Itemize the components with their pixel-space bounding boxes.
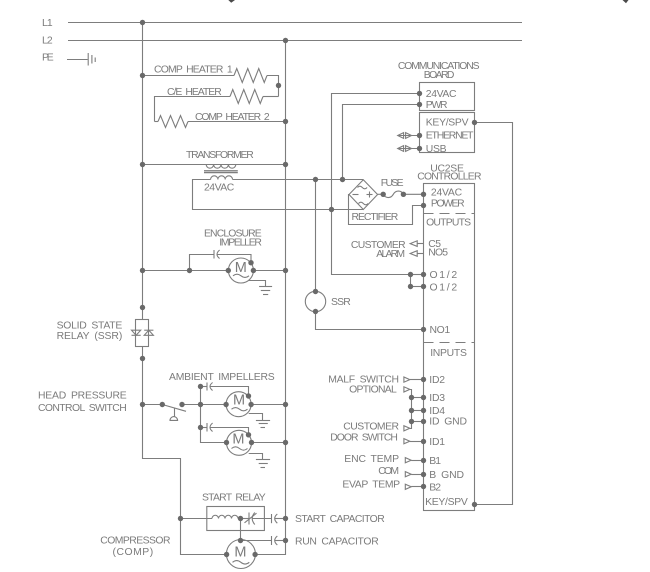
ground PE symbol <box>67 53 95 66</box>
node transformer primary right <box>283 162 288 167</box>
svg-text:L1: L1 <box>42 18 53 29</box>
terminal controller O1/2 a <box>421 272 426 277</box>
node run cap right bus <box>283 538 288 543</box>
svg-text:SOLID STATE: SOLID STATE <box>57 320 123 331</box>
svg-text:M: M <box>234 544 246 560</box>
terminal comms KEY/SPV <box>472 120 477 125</box>
capacitor ambient impeller 1 <box>201 383 249 397</box>
svg-text:M: M <box>235 260 247 276</box>
svg-text:POWER: POWER <box>431 198 465 209</box>
svg-text:COMPRESSOR: COMPRESSOR <box>100 535 171 546</box>
svg-text:ID GND: ID GND <box>429 417 467 428</box>
svg-text:ID3: ID3 <box>429 393 445 404</box>
node ambient1 right bus <box>283 402 288 407</box>
node ambient cap1 tap <box>198 384 203 389</box>
wire ambient capacitor branch vertical <box>201 387 226 443</box>
node start relay coil out <box>238 516 243 521</box>
svg-text:B GND: B GND <box>429 470 464 481</box>
resistor C/E HEATER <box>155 90 279 122</box>
terminal switch left <box>160 402 165 407</box>
node ambient cap2 tap <box>198 425 203 430</box>
ground ambient impeller 2 <box>249 454 270 468</box>
terminal comms PWR <box>417 102 422 107</box>
node transformer primary left <box>140 162 145 167</box>
svg-text:O1/2: O1/2 <box>430 282 458 293</box>
wire L2 rail <box>68 40 522 42</box>
svg-text:START CAPACITOR: START CAPACITOR <box>295 514 385 525</box>
svg-text:IMPELLER: IMPELLER <box>219 238 262 249</box>
svg-text:(COMP): (COMP) <box>113 547 154 558</box>
relay start relay box <box>207 507 265 531</box>
terminal controller B1 <box>421 458 426 463</box>
terminal controller KEY/SPV <box>472 502 477 507</box>
node L2 right bus <box>283 38 288 43</box>
svg-text:O1/2: O1/2 <box>430 270 458 281</box>
arrow input EVAP TEMP to B2 <box>405 484 423 489</box>
SSR circle <box>305 291 325 311</box>
terminal controller ID3 <box>421 395 426 400</box>
terminal controller ID1 <box>421 439 426 444</box>
svg-text:OUTPUTS: OUTPUTS <box>426 218 471 229</box>
motor M compressor <box>226 540 255 569</box>
svg-text:USB: USB <box>426 144 447 155</box>
controller box UC2SE <box>424 184 475 511</box>
node fuse left <box>381 192 386 197</box>
svg-text:CUSTOMER: CUSTOMER <box>343 421 399 432</box>
ground ambient impeller 1 <box>249 414 270 428</box>
motor M enclosure impeller <box>228 258 285 283</box>
node enclosure branch <box>140 268 145 273</box>
svg-text:B2: B2 <box>429 483 441 494</box>
arrow input DOOR SWITCH to ID1 <box>404 439 424 444</box>
svg-text:COMP HEATER 2: COMP HEATER 2 <box>195 112 270 123</box>
wire left bus vertical <box>143 23 227 555</box>
capacitor ambient impeller 2 <box>201 423 249 435</box>
motor1 tilde <box>233 274 249 277</box>
terminal motor2 right <box>248 402 253 407</box>
ground enclosure impeller <box>249 281 272 295</box>
communications board box upper <box>420 83 475 111</box>
svg-text:HEAD PRESSURE: HEAD PRESSURE <box>38 391 127 402</box>
inductor start relay coil <box>212 515 238 518</box>
node ambient cap vertical <box>198 402 203 407</box>
wire right bus vertical <box>255 41 285 555</box>
terminal controller 24VAC <box>421 192 426 197</box>
arrow input ID2 MALF SWITCH <box>404 377 424 382</box>
svg-text:DOOR SWITCH: DOOR SWITCH <box>330 432 398 443</box>
terminal motor1 left <box>226 268 231 273</box>
divider dashed inputs <box>424 342 475 344</box>
wire L1 rail <box>68 22 522 24</box>
terminal comms 24VAC <box>417 91 422 96</box>
terminal motor1 right <box>251 268 256 273</box>
node SSR symbol top <box>140 305 145 310</box>
node L1 left bus <box>140 20 145 25</box>
svg-text:START RELAY: START RELAY <box>202 492 266 503</box>
node secondary top SSR branch <box>313 177 318 182</box>
jumper O1/2 terminals <box>411 275 424 287</box>
marks top edge <box>228 0 235 3</box>
svg-text:EVAP TEMP: EVAP TEMP <box>342 479 400 490</box>
jumper ID3 ID4 ID-GND <box>412 398 424 422</box>
terminal motor3 right <box>249 440 254 445</box>
svg-text:PWR: PWR <box>426 100 448 111</box>
communications board box lower <box>420 113 475 153</box>
wire KEY/SPV loop right side <box>475 123 513 505</box>
svg-text:AMBIENT IMPELLERS: AMBIENT IMPELLERS <box>169 372 275 383</box>
node jumper O1/2 b <box>408 284 413 289</box>
node secondary bottom 24VAC branch <box>329 207 334 212</box>
wire rectifier negative to POWER <box>349 195 424 225</box>
svg-text:RUN CAPACITOR: RUN CAPACITOR <box>295 537 379 548</box>
terminal controller B GND <box>421 472 426 477</box>
motor M ambient impeller 2 <box>227 430 286 455</box>
svg-text:24VAC: 24VAC <box>431 187 463 198</box>
terminal motor3 cap <box>246 432 251 437</box>
arrow pair USB <box>398 146 420 152</box>
node heater1 tap <box>140 73 145 78</box>
terminal comms USB <box>417 146 422 151</box>
contact start relay <box>238 513 272 525</box>
wire rectifier top to SSR <box>315 180 317 292</box>
arrow output C5 <box>410 241 423 247</box>
terminal motor3 left <box>224 440 229 445</box>
solid state relay symbol on left bus <box>132 320 154 347</box>
motor M ambient impeller 1 <box>226 392 285 417</box>
wire enclosure impeller branch <box>143 270 229 272</box>
svg-text:RELAY (SSR): RELAY (SSR) <box>57 331 123 342</box>
terminal controller ID2 <box>421 377 426 382</box>
svg-text:B1: B1 <box>429 456 441 467</box>
svg-text:ID1: ID1 <box>429 437 445 448</box>
node ambient2 right bus <box>283 440 288 445</box>
terminal motor1 cap <box>248 260 253 265</box>
node jumper ID GND <box>409 419 414 424</box>
svg-text:PE: PE <box>42 53 54 64</box>
terminal SSR circle top <box>313 289 318 294</box>
node switch branch <box>140 402 145 407</box>
motor2 tilde <box>232 408 248 411</box>
node start relay feed <box>178 516 183 521</box>
svg-text:TRANSFORMER: TRANSFORMER <box>186 150 254 161</box>
terminal motor4 left <box>224 552 229 557</box>
wire transformer secondary left/bottom to rectifier <box>193 180 364 210</box>
svg-text:COMP HEATER 1: COMP HEATER 1 <box>154 65 233 76</box>
terminal motor2 left <box>223 402 228 407</box>
arrow input COM to B GND <box>405 472 423 477</box>
terminal controller POWER <box>421 203 426 208</box>
node jumper ID4 <box>409 408 414 413</box>
capacitor run capacitor <box>241 536 286 545</box>
arrow input ENC TEMP to B1 <box>405 458 423 463</box>
wire coil junction to compressor <box>240 519 242 541</box>
svg-text:ETHERNET: ETHERNET <box>426 131 474 142</box>
svg-text:SSR: SSR <box>331 297 351 308</box>
svg-text:24VAC: 24VAC <box>426 89 457 100</box>
wire start relay feed <box>181 518 213 520</box>
wire comms PWR to transformer secondary top <box>343 105 420 180</box>
svg-text:INPUTS: INPUTS <box>430 348 467 359</box>
svg-text:OPTIONAL: OPTIONAL <box>349 384 397 395</box>
svg-text:M: M <box>233 393 245 409</box>
resistor COMP HEATER 1 <box>143 69 279 97</box>
terminal controller NO1 <box>421 327 426 332</box>
node jumper O1/2 a <box>408 272 413 277</box>
svg-text:NO1: NO1 <box>430 325 451 336</box>
node heater1/heater-ce junction <box>276 83 281 88</box>
node start cap right bus <box>283 516 288 521</box>
node secondary top PWR branch <box>340 177 345 182</box>
rectifier bridge <box>349 180 378 210</box>
terminal SSR circle bottom <box>313 309 318 314</box>
motor3 tilde <box>232 447 248 450</box>
svg-text:C/E HEATER: C/E HEATER <box>167 87 222 98</box>
terminal motor4 right <box>252 552 257 557</box>
svg-text:BOARD: BOARD <box>424 70 455 81</box>
node enclosure cap tap <box>187 268 192 273</box>
svg-text:CONTROLLER: CONTROLLER <box>417 172 482 183</box>
node fuse right <box>401 192 406 197</box>
svg-text:ENC TEMP: ENC TEMP <box>344 454 399 465</box>
arrow pair ETHERNET <box>398 133 420 139</box>
svg-text:M: M <box>232 432 244 448</box>
terminal comms ETHERNET <box>417 133 422 138</box>
arrow output NO5 <box>410 251 423 257</box>
motor4 tilde <box>233 561 250 565</box>
capacitor start capacitor <box>272 514 286 523</box>
wire SSR to NO1 <box>316 312 424 330</box>
resistor COMP HEATER 2 <box>155 116 286 128</box>
node jumper ID3 <box>409 395 414 400</box>
terminal motor2 cap <box>246 393 251 398</box>
transformer T1 <box>143 165 286 180</box>
wire rectifier positive to fuse <box>378 193 384 195</box>
terminal switch right <box>179 402 184 407</box>
svg-text:NO5: NO5 <box>428 248 448 259</box>
svg-text:RECTIFIER: RECTIFIER <box>352 212 399 223</box>
arrow input OPTIONAL to ID3 <box>404 387 412 398</box>
terminal motor4 top <box>238 538 243 543</box>
arrow input CUSTOMER to ID GND <box>404 422 412 431</box>
terminal controller ID GND <box>421 419 426 424</box>
terminal controller O1/2 b <box>421 284 426 289</box>
divider dashed outputs <box>424 213 475 215</box>
svg-text:COM: COM <box>378 466 399 477</box>
svg-text:KEY/SPV: KEY/SPV <box>425 497 468 508</box>
svg-text:KEY/SPV: KEY/SPV <box>426 118 469 129</box>
switch head pressure control <box>143 405 226 421</box>
svg-text:ID2: ID2 <box>429 375 445 386</box>
svg-text:ALARM: ALARM <box>376 249 405 260</box>
node enclosure right bus <box>283 268 288 273</box>
svg-text:24VAC: 24VAC <box>204 183 235 194</box>
terminal controller ID4 <box>421 408 426 413</box>
svg-text:L2: L2 <box>42 36 53 47</box>
node heater2 right <box>283 119 288 124</box>
svg-text:CONTROL SWITCH: CONTROL SWITCH <box>38 403 127 414</box>
svg-text:ID4: ID4 <box>429 406 445 417</box>
node SSR symbol bottom <box>140 356 145 361</box>
fuse F1 <box>383 191 423 197</box>
terminal controller B2 <box>421 484 426 489</box>
wire transformer secondary top to rectifier <box>233 179 364 181</box>
wire comms 24VAC to transformer secondary and O1/2 <box>332 94 420 275</box>
svg-text:FUSE: FUSE <box>381 178 404 189</box>
capacitor enclosure impeller run cap <box>190 250 252 271</box>
